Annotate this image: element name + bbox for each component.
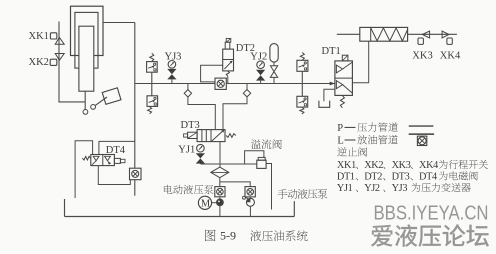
wire: DT1 to actuator (352, 41, 368, 83)
svg-text:YJ1: YJ1 (178, 144, 195, 155)
label DT4 (106, 145, 126, 156)
solenoid valve DT2 (223, 38, 234, 70)
wire: motor link (212, 202, 217, 204)
label XK1 (29, 31, 49, 42)
wire: DT1 tank line (324, 89, 335, 101)
svg-text:XK3: XK3 (392, 160, 411, 171)
label XK2 (29, 57, 49, 68)
legend line types (337, 122, 434, 156)
legend valves (337, 171, 478, 182)
wire: RVa link (151, 72, 153, 96)
solenoid valve DT4 (91, 155, 125, 166)
label DT1 (322, 46, 341, 57)
piston rod (84, 91, 86, 109)
solenoid valve DT1 (335, 55, 353, 95)
svg-text:XK1: XK1 (337, 160, 356, 171)
svg-text:XK3: XK3 (412, 51, 432, 62)
caption 图5-9 液压油系统 (205, 229, 308, 243)
svg-text:M: M (201, 199, 211, 210)
svg-text:L: L (337, 136, 343, 147)
wire: DT2 outlet (226, 71, 229, 84)
svg-text:DT2: DT2 (364, 172, 382, 183)
manual pump filter (245, 187, 255, 197)
svg-text:P: P (337, 123, 343, 134)
check valve CV2 (130, 168, 142, 180)
screw feed cylinder (360, 27, 408, 41)
spring DT1 (340, 95, 344, 107)
wire: feed line (337, 33, 457, 35)
wire: cylinder to riser (103, 22, 135, 24)
wire: manual pump branch (220, 182, 250, 187)
label 手动液压泵 (278, 189, 328, 199)
spring DT3 (226, 134, 236, 138)
node diamond right (223, 84, 251, 130)
accumulator (270, 44, 278, 66)
limit switch XK4 (442, 31, 452, 44)
wire: DT4 outlet (98, 166, 130, 185)
label YJ3 (165, 52, 182, 63)
shutoff valve (270, 66, 277, 84)
watermark (371, 202, 489, 247)
electric pump (217, 197, 224, 217)
solenoid valve DT3 (184, 130, 225, 142)
wire: relief drain (266, 164, 271, 210)
svg-text:DT3: DT3 (392, 172, 410, 183)
svg-text:YJ3: YJ3 (392, 183, 408, 194)
wire: RVb link (301, 71, 303, 96)
svg-text:YJ2: YJ2 (250, 51, 267, 62)
label DT2 (236, 43, 255, 54)
relief valve RVb lower (297, 96, 308, 114)
wire: main pressure line (135, 83, 335, 85)
svg-text:BBS.IYEYA.CN: BBS.IYEYA.CN (374, 202, 489, 225)
flow arrowhead P (330, 82, 336, 86)
limit switch XK1 (50, 33, 64, 44)
relief valve body (257, 157, 266, 168)
pressure transmitter YJ3 (167, 61, 176, 84)
wire: main riser (134, 23, 136, 196)
relief valve RVa upper (147, 53, 158, 72)
svg-text:XK2: XK2 (29, 57, 49, 68)
label XK3 (412, 51, 432, 62)
svg-text:DT1: DT1 (322, 46, 341, 57)
svg-text:YJ1: YJ1 (337, 183, 353, 194)
wire: DT4 frame right (99, 141, 135, 154)
pressure transmitter YJ2 (256, 61, 265, 84)
manual pump (243, 196, 255, 216)
motor M (198, 196, 211, 209)
svg-text:XK4: XK4 (440, 51, 461, 62)
hydraulic cylinder (71, 6, 104, 91)
svg-text:YJ2: YJ2 (364, 183, 380, 194)
wire: DT2 bypass loop (201, 65, 223, 82)
label DT3 (181, 120, 200, 131)
legend switches (337, 160, 488, 171)
wire: pump header (200, 163, 256, 165)
limit switch XK3 (418, 31, 430, 44)
label YJ1 (178, 144, 195, 155)
wire: tank return line (65, 199, 295, 217)
svg-text:XK2: XK2 (364, 160, 383, 171)
filter diamond (211, 164, 229, 187)
electric pump filter (215, 187, 225, 197)
svg-text:DT1: DT1 (337, 172, 355, 183)
label YJ2 (250, 51, 267, 62)
label 溢流阀 (251, 139, 282, 149)
wire: limit-switch sense line (59, 22, 85, 102)
wire: relief pilot loop (245, 151, 264, 164)
limit switch XK2 (50, 54, 64, 66)
tilted platform (102, 88, 121, 104)
wire: DT4 frame left (75, 141, 93, 198)
pressure transmitter YJ1 (196, 144, 205, 164)
svg-text:XK4: XK4 (419, 160, 438, 171)
legend transmitters (337, 183, 471, 194)
svg-text:XK1: XK1 (29, 31, 49, 42)
pivot joints (83, 97, 107, 114)
label XK4 (440, 51, 461, 62)
relief valve RVa lower (147, 96, 158, 114)
tank symbol (319, 101, 330, 108)
svg-text:DT4: DT4 (419, 172, 437, 183)
check valve CV1 (215, 78, 226, 89)
node diamond left (184, 84, 215, 130)
svg-text:5-9: 5-9 (220, 229, 236, 243)
relief valve RVb upper (297, 53, 308, 72)
label 电动液压泵 (164, 185, 214, 195)
spring DT4 (82, 156, 91, 160)
wire: DT3 outlet (219, 142, 221, 164)
